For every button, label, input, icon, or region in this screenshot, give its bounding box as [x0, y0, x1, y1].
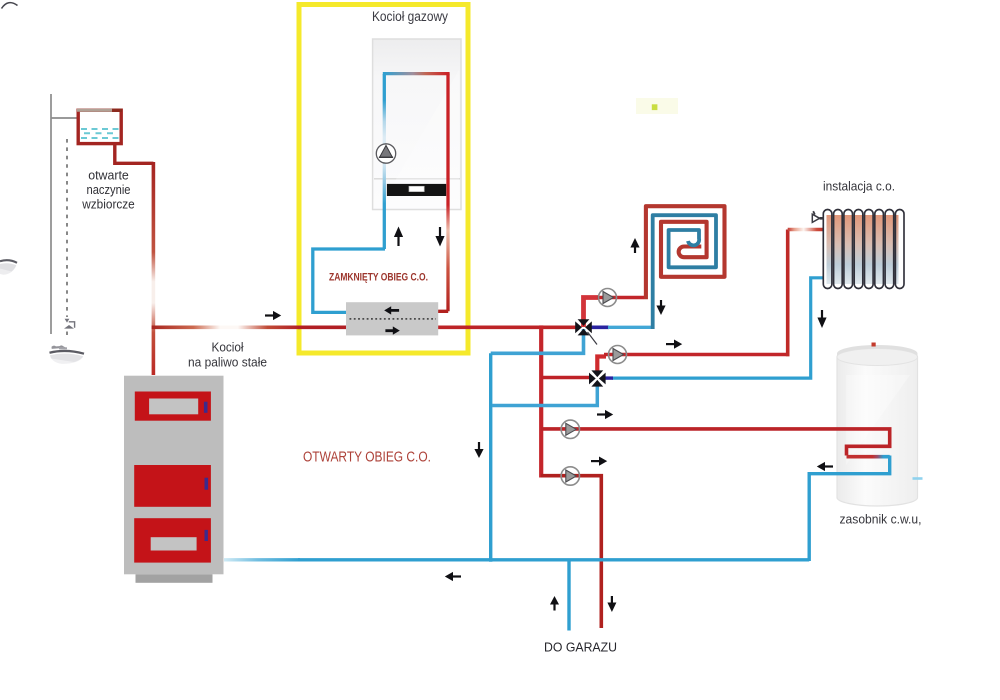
- radiator thermostatic valve: [812, 211, 823, 222]
- svg-text:Kocioł gazowy: Kocioł gazowy: [372, 9, 448, 24]
- flow arrow up below gas boiler: [394, 227, 403, 247]
- red pipe inside gas boiler down to exchanger: [436, 74, 448, 312]
- mixing valve V1: [575, 319, 592, 335]
- gas boiler black control band: [387, 184, 446, 196]
- flow arrow right above pump P3 line: [597, 410, 613, 419]
- flow arrow down garage red: [607, 596, 616, 612]
- svg-text:ZAMKNIĘTY OBIEG C.O.: ZAMKNIĘTY OBIEG C.O.: [329, 272, 428, 284]
- exchanger left-flow arrow: [384, 306, 398, 314]
- boiler top door: [135, 392, 211, 421]
- flow arrow down left of blue return vertical: [474, 442, 483, 458]
- exchanger dotted separator: [350, 318, 437, 320]
- red riser pipe down to solid fuel boiler: [152, 162, 156, 375]
- blue pipe inside gas boiler down to exchanger: [383, 74, 386, 249]
- blue drop below valve V2: [492, 383, 597, 406]
- gray feed line into vessel: [51, 117, 87, 119]
- solid fuel boiler pedestal: [136, 574, 213, 583]
- pump P2: [609, 346, 627, 364]
- long blue return vertical: [489, 353, 492, 562]
- yellow closed-circuit boundary box: [299, 5, 468, 354]
- svg-text:Kocioł: Kocioł: [212, 340, 244, 355]
- tank sensor tick: [872, 343, 876, 347]
- valve V2 riser to pump P2: [597, 357, 606, 375]
- flow arrow left below long blue return: [445, 572, 461, 581]
- hot water tank body: [837, 345, 918, 506]
- boiler bottom door: [134, 518, 211, 562]
- red branch to valve V2: [541, 376, 592, 380]
- svg-text:instalacja c.o.: instalacja c.o.: [823, 179, 895, 194]
- flow arrow up left of floor coil: [630, 238, 639, 253]
- radiator return blue pipe to valve V2: [612, 278, 824, 378]
- svg-text:naczynie: naczynie: [87, 182, 131, 197]
- blue drop below valve V1: [491, 329, 584, 353]
- tank feed pipe and red coil: [541, 429, 890, 456]
- pump P4: [561, 467, 579, 485]
- valve V1 actuator stem: [588, 332, 598, 345]
- mixing valve V2: [589, 370, 606, 386]
- blue drop to garage: [567, 560, 570, 631]
- navy stub right of valve V1: [590, 325, 610, 329]
- flow arrow right above pump P4 line: [591, 457, 607, 466]
- svg-text:na paliwo stałe: na paliwo stałe: [188, 355, 267, 370]
- coil transition segment red to blue: [847, 455, 890, 459]
- pump P1: [599, 289, 617, 307]
- main supply pipe from exchanger to junction and valve V1: [437, 325, 578, 329]
- svg-text:DO GARAZU: DO GARAZU: [544, 640, 617, 655]
- main red vertical distribution pipe: [539, 325, 543, 477]
- top loop gradient pipe in gas boiler: [383, 72, 450, 75]
- coil blue return leaving tank: [809, 456, 890, 562]
- floor heating coil blue spiral: [653, 215, 716, 329]
- flow arrow up garage blue: [550, 596, 559, 611]
- svg-text:OTWARTY OBIEG C.O.: OTWARTY OBIEG C.O.: [303, 450, 431, 466]
- gray supply stand pipe: [50, 94, 52, 334]
- main open-circuit supply pipe left section with fade: [152, 325, 300, 329]
- main supply pipe through yellow border to exchanger: [298, 325, 348, 329]
- flow arrow down below floor coil: [656, 300, 665, 315]
- pump P2 line to radiator riser: [604, 353, 790, 357]
- radiator assembly: [823, 210, 904, 289]
- tank side stub: [913, 477, 923, 480]
- pump P3: [561, 420, 579, 438]
- exchanger right-flow arrow: [386, 326, 400, 334]
- long bottom blue return from boiler: [224, 558, 300, 561]
- radiator feed with fade: [788, 228, 824, 231]
- water level dashes in vessel: [81, 129, 119, 138]
- floor heating coil red spiral: [646, 206, 725, 299]
- red pipe from vessel to riser: [115, 145, 154, 163]
- gray dashed overflow line: [66, 139, 68, 317]
- pump inside gas boiler: [376, 144, 395, 163]
- flow arrow down right of radiator: [817, 310, 826, 328]
- flow arrow right above pump P2 line: [666, 340, 682, 349]
- gas boiler body: [373, 39, 461, 210]
- radiator supply riser: [786, 230, 790, 357]
- navy stub right of valve V2: [603, 376, 614, 379]
- light blue return from floor coil to valve V1: [608, 326, 655, 329]
- flow arrow right before yellow box: [265, 311, 281, 320]
- solid fuel boiler body: [124, 376, 224, 575]
- small drain valve on dashed line: [64, 319, 75, 329]
- open expansion vessel: [77, 110, 122, 143]
- boiler middle door: [134, 465, 211, 507]
- pump P4 branch to garage: [541, 476, 601, 628]
- pump P1 feed line: [597, 296, 644, 300]
- decorative arc top-left: [2, 3, 18, 9]
- faint basin icon left edge: [0, 260, 17, 275]
- flow arrow down below gas boiler: [435, 227, 444, 247]
- flow arrow left above tank return: [817, 462, 833, 471]
- valve V1 riser to pump P1: [584, 298, 600, 328]
- plate heat exchanger: [346, 302, 438, 335]
- washbasin icon: [50, 345, 85, 364]
- svg-text:zasobnik c.w.u,: zasobnik c.w.u,: [840, 512, 922, 527]
- faint yellow-green watermark dot: [636, 98, 678, 114]
- svg-text:otwarte: otwarte: [88, 168, 129, 183]
- svg-text:wzbiorcze: wzbiorcze: [81, 197, 134, 212]
